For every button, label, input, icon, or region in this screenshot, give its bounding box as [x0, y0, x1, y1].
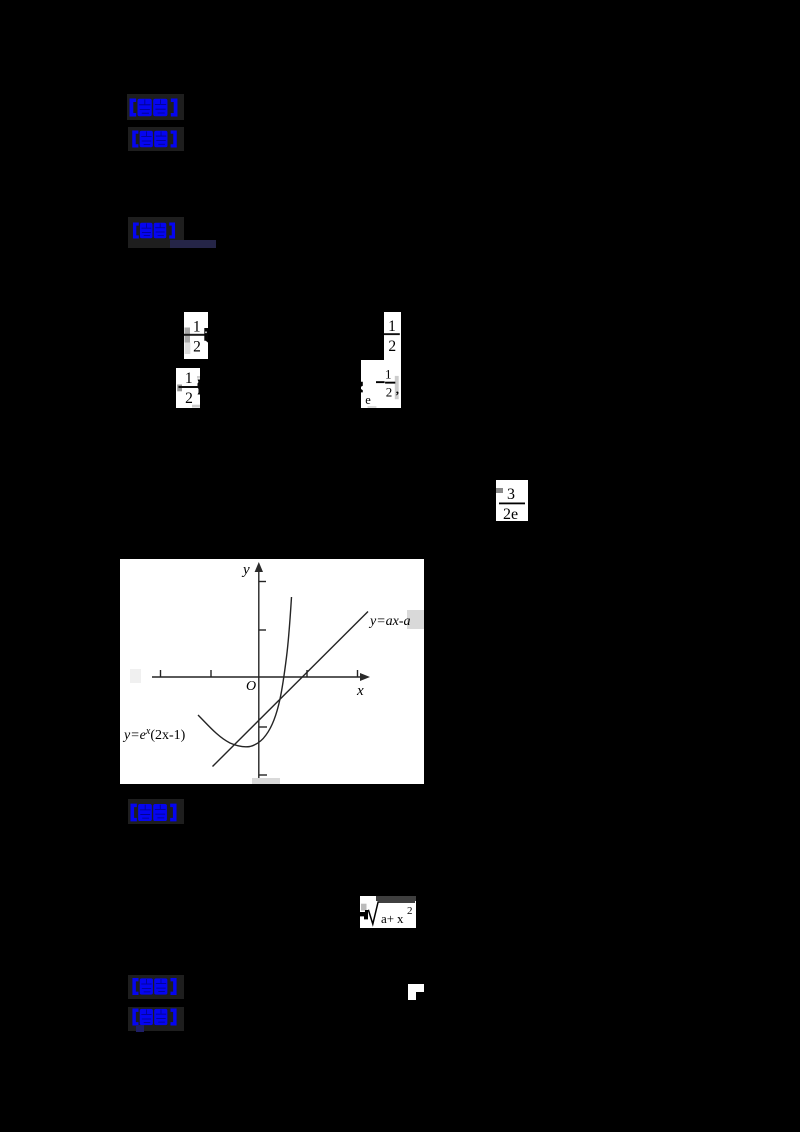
svg-text:2: 2: [185, 390, 193, 407]
svg-text:1: 1: [388, 318, 396, 335]
svg-text:1: 1: [385, 366, 392, 381]
svg-text:2: 2: [386, 384, 393, 399]
white L patch: [408, 984, 424, 992]
x axis: [152, 676, 361, 678]
svg-text:y=ex(2x-1): y=ex(2x-1): [122, 726, 186, 743]
x ticks: [160, 670, 162, 677]
defs for blue CJK label blobs: [0, 0, 1, 1]
formula patch 2: 1/2: [176, 368, 200, 408]
label block 4: [128, 799, 184, 824]
formula patch 4: e^(-1/2),: [361, 360, 401, 408]
straight line y=ax-a: [213, 612, 369, 767]
svg-text:x: x: [356, 683, 364, 699]
svg-text:2e: 2e: [503, 506, 518, 521]
label block 1: [127, 94, 184, 120]
navy dot under block 6: [136, 1025, 144, 1032]
label block 6: [128, 1007, 184, 1031]
formula patch 1: 1/2: [184, 312, 208, 359]
label block 3: [128, 217, 184, 248]
sqrt patch: [360, 896, 416, 928]
formula patch 3: 1/2 (top): [384, 312, 401, 360]
label block 2: [128, 127, 184, 151]
svg-text:,: ,: [396, 382, 399, 397]
svg-text:x: x: [397, 911, 404, 926]
svg-text:3: 3: [507, 486, 515, 503]
y axis: [258, 571, 260, 778]
svg-text:2: 2: [388, 338, 396, 355]
gray patch behind line label: [407, 610, 424, 629]
svg-text:O: O: [246, 679, 256, 694]
formula patch 5: 3/(2e): [496, 480, 528, 521]
arrowheads: [255, 562, 263, 572]
svg-text:y=ax-a: y=ax-a: [368, 614, 411, 629]
gray patch bottom: [252, 778, 280, 784]
svg-text:2: 2: [193, 339, 201, 356]
graph image: [120, 559, 424, 784]
svg-text:a+: a+: [381, 911, 394, 926]
svg-text:e: e: [365, 393, 371, 407]
faint left smudge: [130, 669, 141, 683]
svg-text:1: 1: [185, 370, 193, 387]
label block 5: [128, 975, 184, 999]
curve y=e^x(2x-1): [198, 597, 292, 747]
svg-text:1: 1: [193, 319, 201, 336]
svg-text:y: y: [241, 562, 250, 578]
navy underline strip: [170, 240, 216, 248]
svg-text:2: 2: [407, 905, 413, 917]
y ticks: [259, 581, 266, 583]
